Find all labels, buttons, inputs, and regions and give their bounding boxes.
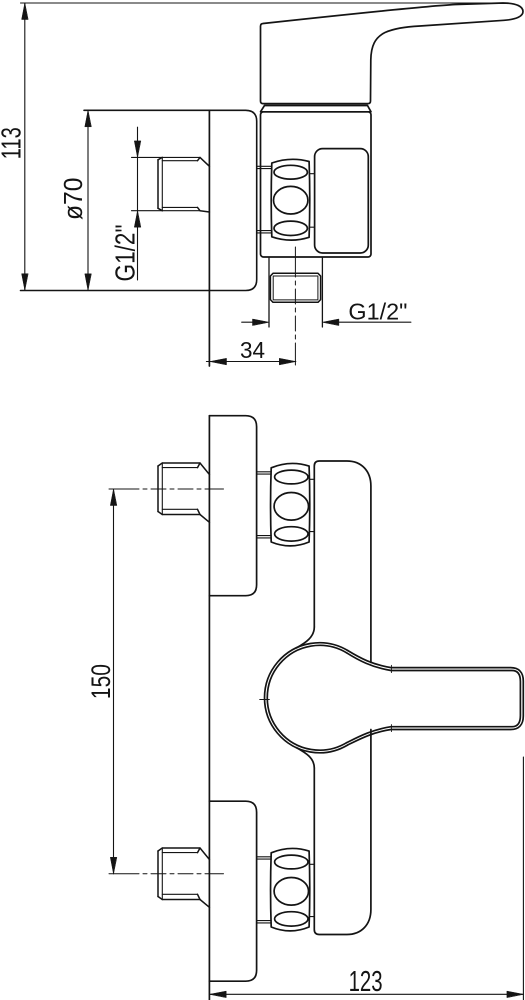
nut ellipse bottom: [274, 221, 307, 235]
body column (front view): [314, 461, 371, 663]
arrowhead outlet left (pointing right): [253, 319, 270, 325]
wall plate (top view, side profile): [21, 110, 257, 290]
lower union nut barrel (front): [271, 848, 310, 930]
svg-text:34: 34: [240, 337, 265, 363]
union nut barrel (top view): [271, 159, 310, 240]
arrowhead 150 top: [110, 489, 116, 506]
dimension 113 line: [24, 3, 26, 290]
column-knob fillets: [296, 627, 314, 768]
lower wall plate (front): [209, 801, 256, 981]
left chamfers: [158, 157, 162, 210]
dimension ø70 line: [87, 110, 89, 290]
wall line (front view, left edge of plates): [208, 416, 210, 1000]
lower nut ellipse middle: [274, 878, 308, 906]
extension line from lever tip down to 123 dim: [522, 757, 524, 1000]
lever arm (front) outer: [348, 650, 524, 745]
upper hex nipple (front): [158, 463, 209, 522]
arrowhead 150 bottom: [110, 857, 116, 874]
svg-text:G1/2": G1/2": [348, 298, 407, 324]
upper nut ellipse bottom: [275, 527, 308, 541]
tangent tick marks on knob/lever: [260, 665, 392, 731]
dimension 123 line: [210, 993, 524, 995]
lower flange lines: [257, 857, 272, 923]
svg-text:G1/2": G1/2": [110, 225, 141, 282]
svg-text:ø70: ø70: [60, 178, 88, 221]
upper flange lines: [257, 472, 272, 538]
arrowhead 123 right: [507, 991, 524, 997]
arrowhead ø70 bottom: [85, 274, 91, 291]
wall nipple (top view G1/2 inlet): [132, 157, 210, 212]
root lines: [162, 161, 197, 208]
handle cap (trapezoid below lever): [261, 106, 372, 112]
arrowhead 34 left (pointing left): [210, 358, 227, 364]
crest top edge + extension: [132, 156, 201, 158]
upper nut ellipse top: [275, 470, 308, 484]
outlet centerline (dash-dot): [294, 247, 296, 365]
dimension G1/2 (outlet): [242, 321, 411, 323]
lever (top view handle): [261, 3, 524, 104]
lower nut ellipse bottom: [275, 912, 308, 926]
outlet pipe neck lines / extension lines: [269, 258, 322, 327]
inner rounded rectangle (body front face): [315, 149, 369, 253]
arrowhead G1/2 bottom (pointing up): [134, 211, 140, 228]
body (top view cartridge housing): [261, 112, 372, 257]
thread runout diagonals: [198, 157, 210, 212]
wire: top extension line (113 dim, lever tip level): [21, 2, 506, 4]
flange between plate and union nut (top view): [257, 166, 272, 233]
lever arm (front) inner: [347, 653, 521, 743]
nut ellipse middle: [274, 186, 308, 214]
arrowhead ø70 top: [85, 110, 91, 127]
arrowhead outlet right (pointing left): [322, 319, 339, 325]
dimension 150 line: [113, 489, 115, 874]
svg-text:150: 150: [86, 664, 116, 699]
lower port centerline: [109, 873, 224, 875]
upper nut ellipse middle: [274, 493, 308, 521]
svg-text:113: 113: [0, 127, 27, 159]
dimension G1/2 (top view) line: [137, 127, 139, 280]
handle knob outer circle: [265, 643, 348, 753]
lower nut stubs: [309, 864, 314, 916]
upper wall plate (front): [209, 416, 256, 596]
nut ellipse top: [274, 165, 307, 179]
arrowhead G1/2 top (pointing down): [134, 141, 140, 158]
left outer edge: [157, 160, 159, 209]
upper union nut barrel (front): [271, 463, 310, 545]
arrowhead 34 right (pointing right): [279, 358, 296, 364]
upper nut stubs: [309, 479, 314, 531]
arrowhead 123 left: [210, 991, 227, 997]
left inner thread line: [161, 157, 163, 210]
lower hex nipple (front): [158, 848, 209, 907]
wall line / plate back edge: [208, 110, 210, 366]
outlet thread stub: [270, 273, 320, 302]
arrowhead 113 top: [22, 3, 28, 20]
upper port centerline: [109, 488, 224, 490]
crest bottom edge + extension: [132, 210, 201, 212]
handle knob inner circle: [267, 645, 346, 750]
arrowhead 113 bottom: [22, 274, 28, 291]
svg-text:123: 123: [349, 966, 383, 998]
nut-body stubs: [309, 174, 314, 228]
dimension 34: [206, 361, 295, 363]
lower nut ellipse top: [275, 855, 308, 869]
